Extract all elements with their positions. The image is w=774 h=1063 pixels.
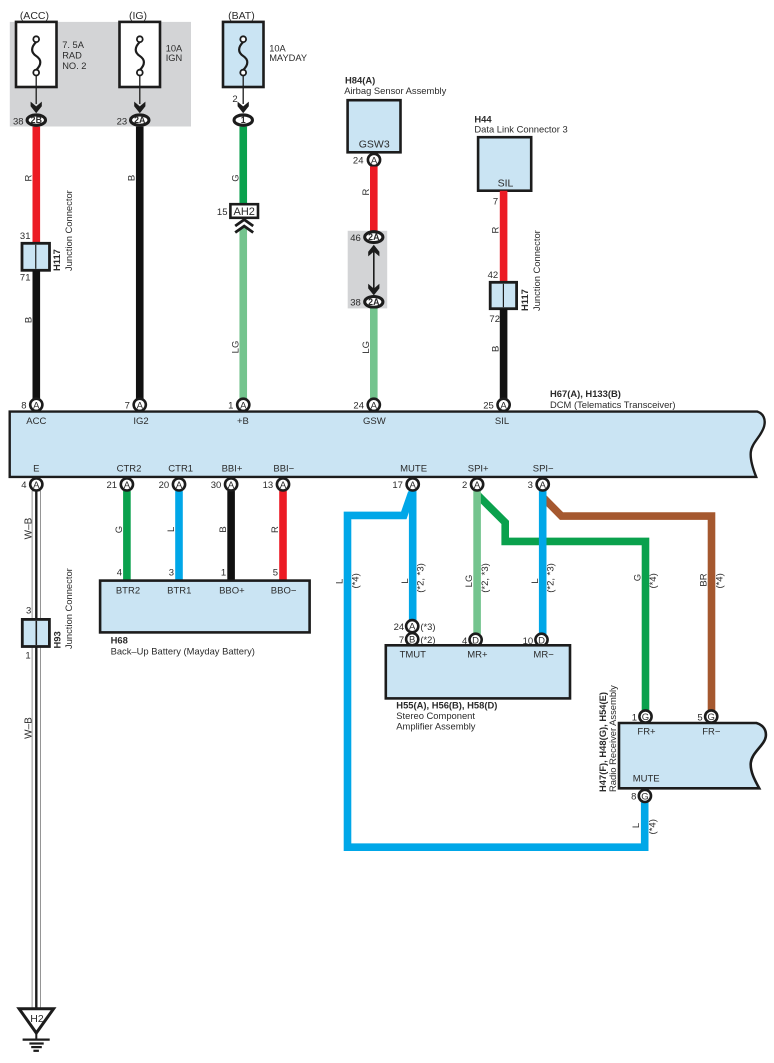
svg-text:A: A — [500, 400, 507, 411]
svg-text:R: R — [490, 226, 501, 233]
connector oval 38 2A — [365, 297, 383, 308]
svg-text:SPI−: SPI− — [533, 464, 554, 475]
svg-text:(*3): (*3) — [420, 621, 435, 632]
component stereo amplifier box — [386, 645, 570, 698]
fuse (IG) 10A IGN — [120, 10, 184, 113]
wire G (CTR2 to BTR2) — [123, 491, 131, 581]
svg-text:(*4): (*4) — [648, 573, 659, 588]
svg-text:SIL: SIL — [495, 416, 509, 427]
svg-text:1: 1 — [228, 400, 233, 411]
svg-text:BTR2: BTR2 — [116, 586, 140, 597]
junction connector H93 box — [22, 619, 49, 646]
svg-text:SPI+: SPI+ — [468, 464, 489, 475]
svg-text:A: A — [176, 480, 183, 491]
svg-text:FR−: FR− — [702, 727, 721, 738]
fuse (ACC) 7.5A RAD NO. 2 — [16, 10, 86, 113]
svg-text:G: G — [230, 174, 241, 181]
component H68 box — [100, 581, 310, 633]
svg-text:25: 25 — [483, 400, 494, 411]
svg-text:B: B — [126, 175, 137, 181]
gray splice panel background (GSW) — [348, 231, 388, 309]
svg-text:1: 1 — [241, 115, 246, 125]
svg-text:2A: 2A — [134, 115, 146, 125]
junction connector H117 (left) box — [22, 243, 50, 270]
svg-text:1: 1 — [221, 568, 226, 579]
svg-text:A: A — [474, 480, 481, 491]
svg-text:BBI+: BBI+ — [222, 464, 243, 475]
DCM bottom pin circle 13 A — [277, 478, 289, 491]
svg-text:(*2): (*2) — [420, 634, 435, 645]
svg-text:IG2: IG2 — [133, 416, 148, 427]
DCM bottom pin circle 17 A — [407, 478, 419, 491]
svg-text:4: 4 — [21, 480, 26, 491]
wire L (CTR1 to BTR1) — [175, 491, 183, 581]
svg-text:MR+: MR+ — [467, 650, 488, 661]
svg-text:8: 8 — [21, 400, 26, 411]
svg-text:AH2: AH2 — [233, 206, 254, 218]
svg-text:LG: LG — [361, 341, 372, 354]
svg-text:H68: H68 — [111, 634, 128, 645]
svg-text:E: E — [33, 464, 39, 475]
connector oval 1 (BAT) — [234, 115, 252, 125]
pin circle 7 B (TMUT) — [406, 633, 418, 646]
component H84 GSW3 box — [348, 100, 401, 152]
svg-text:L: L — [400, 578, 411, 583]
DCM bottom pin circle 21 A — [121, 478, 133, 491]
svg-text:FR+: FR+ — [637, 727, 656, 738]
svg-text:A: A — [33, 480, 40, 491]
svg-text:5: 5 — [697, 713, 702, 724]
svg-text:H117: H117 — [51, 249, 62, 271]
wire LG (AH2 to DCM +B) — [239, 228, 247, 399]
svg-text:L: L — [335, 579, 346, 584]
svg-text:4: 4 — [117, 568, 122, 579]
wire LG (SPI+ to MR+) — [473, 491, 481, 634]
svg-text:2: 2 — [462, 480, 467, 491]
svg-text:A: A — [137, 400, 144, 411]
DCM top pin circle 24 A — [368, 399, 380, 412]
svg-text:R: R — [270, 526, 281, 533]
svg-text:3: 3 — [169, 568, 174, 579]
svg-text:7. 5A: 7. 5A — [62, 40, 85, 50]
pin circle 8 G (MUTE) — [639, 790, 651, 803]
svg-text:42: 42 — [488, 270, 499, 281]
wire L trunk (MUTE to TMUT) — [409, 491, 417, 621]
svg-text:1: 1 — [632, 713, 637, 724]
svg-text:H84(A): H84(A) — [345, 74, 375, 85]
svg-text:2: 2 — [232, 94, 237, 105]
svg-text:G: G — [633, 574, 644, 581]
DCM top pin circle 8 A — [30, 399, 42, 412]
svg-text:21: 21 — [107, 480, 118, 491]
svg-text:B: B — [23, 317, 34, 323]
svg-text:24: 24 — [353, 400, 364, 411]
svg-text:A: A — [124, 480, 131, 491]
svg-text:RAD: RAD — [62, 51, 82, 61]
svg-text:NO. 2: NO. 2 — [62, 61, 86, 71]
chevrons below AH2 — [235, 220, 253, 233]
svg-text:H117: H117 — [519, 289, 530, 311]
junction connector H117 (right) box — [490, 282, 516, 308]
svg-text:W–B: W–B — [24, 517, 35, 539]
svg-text:31: 31 — [20, 231, 31, 242]
pin circle 5 G (FR-) — [705, 710, 717, 723]
wire B (IG to DCM IG2) — [136, 127, 144, 399]
svg-text:7: 7 — [493, 197, 498, 208]
svg-text:R: R — [361, 188, 372, 195]
svg-text:46: 46 — [350, 233, 361, 244]
svg-text:TMUT: TMUT — [400, 650, 427, 661]
fuse (BAT) 10A MAYDAY — [223, 10, 307, 113]
svg-text:BTR1: BTR1 — [167, 586, 191, 597]
svg-text:15: 15 — [217, 207, 228, 218]
DCM bottom pin circle 4 A — [30, 478, 42, 491]
svg-text:Airbag Sensor Assembly: Airbag Sensor Assembly — [344, 85, 446, 96]
svg-text:BBI−: BBI− — [273, 464, 294, 475]
svg-text:3: 3 — [26, 606, 31, 617]
svg-text:A: A — [228, 480, 235, 491]
svg-text:(*2, *3): (*2, *3) — [480, 563, 491, 593]
svg-text:MUTE: MUTE — [400, 464, 427, 475]
svg-text:ACC: ACC — [26, 416, 46, 427]
svg-text:2A: 2A — [368, 297, 380, 307]
svg-text:23: 23 — [117, 116, 128, 127]
svg-text:A: A — [371, 400, 378, 411]
DCM top pin circle 1 A — [237, 399, 249, 412]
pin circle 1 G (FR+) — [639, 710, 651, 723]
svg-text:MAYDAY: MAYDAY — [269, 53, 307, 63]
svg-text:Junction Connector: Junction Connector — [531, 230, 542, 311]
wire W-B (E to ground H2) — [32, 491, 40, 1009]
svg-text:A: A — [371, 155, 378, 166]
svg-text:MR−: MR− — [533, 650, 554, 661]
svg-text:(*4): (*4) — [350, 573, 361, 588]
svg-text:38: 38 — [350, 298, 361, 309]
svg-text:1: 1 — [25, 651, 30, 662]
svg-text:71: 71 — [20, 273, 31, 284]
svg-text:GSW: GSW — [363, 416, 386, 427]
pin circle 4 D (MR+) — [470, 634, 482, 647]
svg-text:(*4): (*4) — [648, 819, 659, 834]
svg-text:72: 72 — [489, 314, 500, 325]
wire L branch (MUTE to radio MUTE) — [348, 493, 645, 848]
wire R (BBI- to BBO-) — [279, 491, 287, 581]
svg-text:L: L — [166, 527, 177, 532]
wire G (BAT to AH2) — [239, 127, 247, 205]
connector AH2 box — [230, 204, 258, 218]
connector oval 46 2A — [365, 232, 383, 243]
svg-text:A: A — [409, 622, 416, 633]
svg-text:Junction Connector: Junction Connector — [63, 190, 74, 271]
DCM top pin circle 25 A — [498, 399, 510, 412]
gray fuse panel background — [10, 22, 191, 127]
svg-text:Stereo Component: Stereo Component — [396, 710, 475, 721]
svg-text:3: 3 — [528, 480, 533, 491]
svg-text:B: B — [490, 346, 501, 352]
svg-text:38: 38 — [13, 116, 24, 127]
wire B (H117 to DCM SIL) — [500, 309, 508, 399]
svg-text:IGN: IGN — [166, 53, 183, 63]
svg-text:BR: BR — [699, 573, 710, 586]
DCM bottom pin circle 3 A — [537, 478, 549, 491]
wire BR (SPI- to FR-) — [543, 497, 712, 711]
svg-text:LG: LG — [230, 341, 241, 354]
svg-text:2B: 2B — [31, 115, 42, 125]
svg-text:A: A — [33, 400, 40, 411]
svg-text:DCM (Telematics Transceiver): DCM (Telematics Transceiver) — [550, 399, 676, 410]
svg-text:A: A — [240, 400, 247, 411]
svg-text:BBO−: BBO− — [271, 586, 297, 597]
svg-text:L: L — [530, 578, 541, 583]
svg-text:SIL: SIL — [498, 178, 514, 190]
pin circle 10 D (MR-) — [535, 634, 547, 647]
svg-text:10A: 10A — [269, 44, 286, 54]
svg-text:8: 8 — [631, 792, 636, 803]
svg-text:Back–Up Battery (Mayday Batter: Back–Up Battery (Mayday Battery) — [111, 646, 255, 657]
svg-text:A: A — [410, 480, 417, 491]
svg-text:CTR2: CTR2 — [117, 464, 142, 475]
svg-text:13: 13 — [263, 480, 274, 491]
wire B (BBI+ to BBO+) — [227, 491, 235, 581]
svg-text:MUTE: MUTE — [633, 774, 660, 785]
svg-text:5: 5 — [273, 568, 278, 579]
svg-text:G: G — [708, 712, 715, 723]
svg-text:A: A — [280, 480, 287, 491]
svg-text:(*2, *3): (*2, *3) — [546, 563, 557, 593]
svg-text:(*2, *3): (*2, *3) — [416, 563, 427, 593]
wire G (SPI+ to FR+) — [478, 496, 645, 712]
svg-text:30: 30 — [211, 480, 222, 491]
component radio receiver box — [619, 723, 766, 788]
svg-text:Data Link Connector 3: Data Link Connector 3 — [474, 124, 567, 135]
svg-text:CTR1: CTR1 — [168, 464, 193, 475]
connector oval 2A (IG) — [131, 115, 149, 125]
svg-text:(ACC): (ACC) — [20, 10, 49, 22]
svg-text:+B: +B — [237, 416, 249, 427]
svg-text:H2: H2 — [30, 1013, 44, 1025]
splice arrows (GSW) — [373, 251, 375, 290]
svg-text:H67(A), H133(B): H67(A), H133(B) — [550, 388, 621, 399]
wire B (H117 to DCM ACC) — [32, 270, 40, 398]
svg-text:2A: 2A — [368, 232, 380, 242]
svg-text:H93: H93 — [51, 631, 62, 648]
wire L (SPI- to MR-) — [539, 491, 547, 634]
DCM bottom pin circle 2 A — [471, 478, 483, 491]
svg-text:Radio Receiver Assembly: Radio Receiver Assembly — [607, 685, 618, 792]
svg-text:A: A — [540, 480, 547, 491]
pin circle 24 A (TMUT) — [406, 620, 418, 633]
svg-text:G: G — [641, 791, 648, 802]
svg-text:7: 7 — [125, 400, 130, 411]
svg-text:W–B: W–B — [24, 717, 35, 739]
svg-text:H55(A), H56(B), H58(D): H55(A), H56(B), H58(D) — [396, 700, 497, 711]
ground H2 — [19, 1009, 54, 1051]
svg-text:G: G — [114, 526, 125, 533]
DCM top pin circle 7 A — [134, 399, 146, 412]
DCM bottom pin circle 30 A — [225, 478, 237, 491]
component DCM (Telematics Transceiver) box — [10, 412, 765, 477]
wire R (ACC to H117) — [32, 127, 40, 245]
svg-text:Amplifier Assembly: Amplifier Assembly — [396, 721, 476, 732]
svg-text:10A: 10A — [166, 44, 183, 54]
svg-text:(*4): (*4) — [714, 573, 725, 588]
wire R (SIL to H117) — [500, 191, 508, 284]
wire R (GSW3 to splice) — [370, 167, 378, 232]
svg-text:R: R — [23, 174, 34, 181]
svg-text:GSW3: GSW3 — [359, 138, 390, 150]
svg-text:24: 24 — [353, 155, 364, 166]
svg-text:LG: LG — [464, 575, 475, 588]
svg-text:17: 17 — [392, 480, 403, 491]
wire LG (splice to DCM GSW) — [370, 309, 378, 399]
component H44 SIL box — [478, 137, 531, 191]
svg-text:Junction Connector: Junction Connector — [63, 568, 74, 649]
svg-text:G: G — [642, 712, 649, 723]
DCM bottom pin circle 20 A — [173, 478, 185, 491]
svg-text:20: 20 — [159, 480, 170, 491]
connector oval 2B — [27, 115, 45, 125]
svg-text:B: B — [218, 526, 229, 532]
pin circle 24 A (GSW3) — [368, 154, 380, 167]
svg-text:24: 24 — [394, 622, 405, 633]
svg-text:L: L — [631, 823, 642, 828]
svg-text:(IG): (IG) — [129, 10, 147, 22]
svg-text:BBO+: BBO+ — [219, 586, 245, 597]
svg-text:(BAT): (BAT) — [228, 10, 255, 22]
